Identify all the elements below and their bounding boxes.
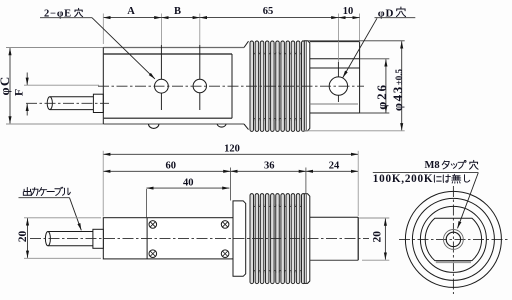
end view circle 3 — [420, 206, 486, 272]
dimension 40 — [146, 187, 229, 189]
svg-text:100K,200K: 100K,200K — [373, 173, 434, 185]
extension 20-right bottom — [362, 259, 389, 261]
cable bottom edge (bottom) — [48, 245, 93, 247]
svg-text:24: 24 — [329, 161, 340, 172]
extension 20-right top — [359, 217, 389, 219]
flange (bottom view) — [304, 194, 310, 284]
label output-cable underline — [19, 197, 70, 199]
svg-text:65: 65 — [263, 6, 274, 17]
body centerline (top view) — [98, 85, 364, 87]
block outer top edge — [103, 47, 244, 49]
extension line top of body (for dim C) — [6, 47, 103, 49]
svg-text:20: 20 — [371, 231, 383, 243]
neck chamfer top — [244, 41, 249, 47]
dimension A — [103, 17, 161, 19]
end view boss with flats — [425, 218, 481, 260]
end view horizontal centerline — [399, 238, 508, 240]
end view circle 2 — [412, 198, 494, 280]
cable end ellipse (bottom) — [45, 231, 50, 245]
hole D centerline vertical — [337, 62, 339, 102]
cable top edge — [50, 96, 94, 98]
centerline (bottom view) — [30, 238, 369, 240]
svg-text:φC: φC — [0, 76, 12, 96]
extension 40 left — [145, 189, 147, 217]
dimension 20 left — [27, 218, 29, 257]
dimension phiC vertical — [9, 48, 11, 123]
cylinder line 26-bottom — [310, 112, 360, 114]
neck chamfer bottom — [244, 124, 249, 130]
leader to hole D — [343, 18, 377, 77]
cylinder inner line lower — [310, 103, 358, 105]
foot bump left — [149, 124, 159, 128]
cable gland — [93, 94, 103, 112]
dimension 65 — [200, 17, 339, 19]
cylinder right face extension up — [359, 14, 361, 42]
extension 36|24 — [305, 168, 307, 194]
dimension 60 — [103, 170, 230, 172]
hole E1 circle — [155, 79, 169, 93]
dimension B — [161, 17, 199, 19]
cable gland (bottom) — [93, 229, 103, 248]
cable top edge (bottom) — [48, 230, 93, 232]
cylinder top edge — [310, 41, 360, 43]
cable end ellipse — [47, 97, 52, 110]
dimension 20 right — [384, 219, 386, 260]
svg-text:40: 40 — [183, 177, 194, 188]
svg-text:M8: M8 — [425, 160, 440, 171]
collar (bottom view) — [233, 201, 246, 276]
hole E2 circle — [193, 79, 206, 92]
dimension phi26 vertical — [385, 59, 387, 112]
hole D extension up — [337, 14, 339, 63]
extension line phi43 bottom — [302, 130, 405, 132]
svg-text:120: 120 — [224, 144, 240, 155]
label 2-phiE kanji ana — [75, 8, 83, 16]
block boss edge — [146, 218, 148, 259]
svg-text:F: F — [11, 89, 25, 96]
flange inner line (bottom) — [305, 194, 307, 282]
block outer bottom edge — [103, 123, 244, 125]
label phiD kanji ana — [396, 7, 405, 17]
dimension 10 — [338, 17, 359, 19]
cylinder right face — [359, 42, 361, 114]
shaft top edge — [310, 216, 358, 218]
dimension phi43 vertical — [401, 41, 403, 130]
extension left 120/60 — [102, 151, 104, 217]
leader to hole E1 — [92, 18, 155, 79]
extension line phi26 top — [360, 58, 390, 60]
svg-text:20: 20 — [17, 231, 29, 243]
label output-cable (shutsuryoku cable) — [23, 187, 31, 195]
leader to cable — [70, 198, 82, 231]
dimension 36 — [230, 170, 306, 172]
extension line body center (for dim F) — [24, 84, 99, 86]
foot bump right — [217, 124, 226, 127]
block left edge — [102, 48, 104, 125]
extension right 120/24 — [357, 151, 359, 216]
extension for A left — [102, 14, 104, 45]
svg-text:A: A — [127, 6, 135, 17]
bellows (bottom view) — [250, 194, 254, 284]
hole E2 extension up — [199, 14, 201, 46]
cylinder inner line upper — [310, 67, 360, 69]
svg-text:B: B — [174, 6, 181, 17]
M8 tap hole — [446, 232, 460, 246]
screws circled-x — [149, 221, 157, 229]
svg-text:36: 36 — [264, 161, 275, 172]
flange inner line — [305, 41, 307, 130]
extension line bottom of body (for dim C) — [6, 123, 103, 125]
label phiD underline — [375, 17, 416, 19]
bellows (top view) — [250, 41, 254, 131]
end view vertical centerline — [452, 186, 454, 294]
shaft bottom edge — [310, 259, 358, 261]
block outline (bottom view) — [103, 218, 233, 259]
M8 thread circle — [444, 230, 464, 250]
extension 20-left bottom — [24, 257, 101, 259]
cylinder line 26-top — [310, 58, 360, 60]
end view bottom flat thick — [436, 261, 471, 263]
block right edge — [231, 54, 233, 118]
extension line phi26 bottom — [360, 112, 390, 114]
hole E2 centerline vertical — [199, 45, 201, 110]
hole E1 centerline vertical — [160, 45, 162, 110]
shaft right face — [357, 217, 359, 260]
leader to M8 hole — [458, 173, 479, 229]
block inner top edge — [104, 53, 232, 55]
extension 60|36 — [229, 168, 231, 201]
extension line phi43 top — [302, 40, 405, 42]
dim F upper arrow — [26, 73, 28, 85]
end view outer circle — [405, 191, 501, 287]
svg-text:φ26: φ26 — [374, 83, 389, 110]
svg-text:10: 10 — [343, 6, 354, 17]
cable centerline (top view) — [26, 102, 109, 104]
dimension 120 — [103, 153, 358, 155]
hole D circle — [329, 77, 347, 95]
dim F lower arrow — [26, 104, 28, 116]
label M8 underline — [373, 172, 479, 174]
cable bottom edge — [50, 109, 94, 111]
flange (top view) — [304, 41, 310, 131]
block inner bottom edge — [104, 117, 232, 119]
hole E1 extension up — [160, 14, 162, 46]
extension 20-left top — [24, 217, 101, 219]
dimension 24 — [306, 170, 358, 172]
label 2-phiE underline — [40, 17, 92, 19]
svg-text:60: 60 — [166, 161, 177, 172]
